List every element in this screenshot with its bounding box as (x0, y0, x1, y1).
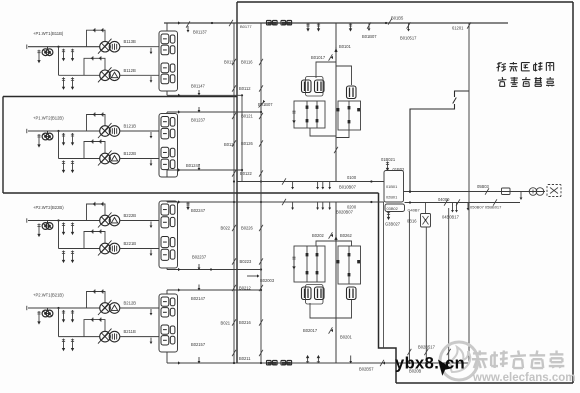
X-box link to line 0400 (425, 203, 427, 214)
arrester row 3 lower x63 (63, 251, 65, 262)
current arrows upper row 1 (92, 29, 95, 32)
svg-text:61201: 61201 (452, 26, 464, 31)
branch junction row 2 (57, 130, 59, 132)
current arrows lower row 1 (90, 57, 93, 60)
surge arrester on top line c (350, 23, 352, 30)
switch slash on top line (229, 20, 233, 26)
svg-text:B91B07: B91B07 (258, 102, 273, 107)
arrowhead top line row 1 (178, 21, 181, 24)
link to cabinet lower row 1 (120, 74, 159, 76)
arrester bus0100 c (322, 182, 324, 189)
arrester row 3 upper x72 (72, 223, 74, 234)
arrester row 2 upper x63 (63, 133, 65, 144)
svg-text:B0126: B0126 (241, 141, 254, 146)
cluster2 left bottom link (310, 303, 336, 318)
cluster1 left CT branch a (306, 101, 308, 128)
cabinet top riser row 4 (166, 290, 168, 294)
notice text line1 (xiantiao quyu nei) (497, 63, 502, 65)
cabinet top riser row 2 (166, 112, 168, 114)
line PT cluster row 4 (42, 310, 49, 317)
junction bus0200 (370, 201, 372, 203)
arrowhead bottom line row 3 (178, 268, 181, 271)
arrester row 1 lower x72 (72, 77, 74, 88)
cluster1 left breaker B (315, 80, 325, 93)
switch B01017 (329, 54, 333, 60)
incoming line row 1 (28, 46, 100, 48)
bus link symbol 2 on bottom bus (281, 360, 286, 365)
cluster2 left breaker frame (306, 285, 324, 305)
feeder drop x426 (425, 227, 427, 363)
link to cabinet upper row 1 (120, 46, 159, 48)
svg-text:B01B07: B01B07 (362, 34, 377, 39)
watermark hanzi dianzifashaoyou (473, 352, 487, 354)
surge arrester on top line a (307, 23, 309, 30)
junction bus0100 (370, 180, 372, 182)
cluster2 left breaker B (315, 287, 325, 300)
cluster2 left breaker A (302, 287, 312, 300)
tick on row2 top line (198, 107, 200, 111)
tick on row4 bottom line (198, 357, 200, 362)
cluster2 left arrester (293, 256, 295, 268)
arrow on feeder B0202 (334, 236, 337, 240)
svg-text:B012: B012 (224, 142, 234, 147)
svg-text:B0262: B0262 (340, 233, 353, 238)
tick on row4 top line (198, 285, 200, 290)
arrester row 1 upper x63 (63, 49, 65, 60)
energized area box left edge (236, 2, 238, 363)
link to cabinet lower row 3 (120, 248, 159, 250)
arrester on line 0500 (520, 192, 522, 199)
svg-text:+P1.WT2(B12B): +P1.WT2(B12B) (33, 116, 64, 121)
svg-text:01B021: 01B021 (381, 157, 396, 162)
transformer B221B row 3 (100, 243, 111, 254)
feeder vertical segment (241, 95, 243, 181)
transformer B121B row 2 (100, 126, 111, 137)
branch junction row 3 (57, 219, 59, 221)
cluster1 left bottom link (310, 128, 336, 136)
cluster2 right breaker (347, 287, 357, 300)
svg-text:B212B: B212B (124, 301, 137, 306)
svg-text:02B01: 02B01 (386, 195, 397, 200)
fuse rect on line 0500 (502, 188, 511, 195)
junction dot on top line (211, 22, 213, 24)
transformer B112B row 1 (100, 70, 111, 81)
line 0500 to right (404, 191, 546, 193)
link to cabinet lower row 2 (120, 158, 159, 160)
CT loop upper row 1 (87, 30, 106, 47)
arrester row 3 upper x63 (63, 223, 65, 234)
arrowhead bottom line row 2 (178, 168, 181, 171)
svg-text:B0216: B0216 (239, 320, 252, 325)
svg-text:B02003: B02003 (260, 278, 275, 283)
current arrows lower row 3 (90, 230, 93, 233)
cluster1 left breaker frame (306, 77, 324, 97)
switch B010517 (407, 22, 411, 28)
svg-text:B022: B022 (221, 226, 231, 231)
arrow on feeder B0101 (334, 48, 337, 52)
energized area boundary step upper right (455, 91, 470, 97)
svg-text:B0122: B0122 (240, 171, 253, 176)
line PT cluster row 3 (42, 223, 49, 230)
branch junction row 4 (57, 307, 59, 309)
cluster1 right bottom link (336, 130, 349, 138)
switch on bus 0100 (282, 178, 286, 184)
incoming line row 4 (28, 307, 100, 309)
cluster1 right CT branch (348, 101, 350, 130)
energized area arm bottom edge (3, 192, 379, 194)
switch on bus 0200 (282, 199, 286, 205)
CT loop lower row 4 (84, 320, 105, 337)
switch a on line 0400 (444, 199, 448, 205)
link to cabinet upper row 3 (120, 220, 159, 222)
transformer B122B row 2 (100, 153, 111, 164)
cabinet bottom riser row 2 (166, 170, 168, 177)
arrester 01B02 (387, 162, 389, 170)
tie box 03B02 (385, 204, 405, 212)
incoming line row 3 (28, 220, 100, 222)
arrester at line start row 3 (38, 224, 40, 236)
watermark cursor (438, 360, 452, 376)
svg-text:+P2.WT1(B21B): +P2.WT1(B21B) (33, 293, 64, 298)
arrester row 2 upper x72 (72, 133, 74, 144)
arrester bus0200 d (329, 202, 331, 209)
junction dots at feeder connections (241, 94, 243, 96)
link to cabinet lower row 4 (120, 336, 159, 338)
junction at boundary x410 lower (409, 201, 411, 203)
svg-text:+P1.WT1(B11B): +P1.WT1(B11B) (33, 31, 64, 36)
energized area box bottom edge (396, 382, 573, 384)
svg-text:B211B: B211B (124, 329, 136, 334)
arrester row 4 lower x72 (72, 339, 74, 350)
svg-text:www.elecfans.com: www.elecfans.com (472, 372, 575, 384)
cluster2 right branch link (336, 241, 352, 246)
svg-text:B0223: B0223 (240, 259, 253, 264)
switchgear cabinet row 2 (159, 114, 178, 178)
cabinet bottom line row 3 (167, 269, 261, 271)
svg-text:B02B517: B02B517 (418, 345, 436, 350)
switchgear cabinet row 4 (159, 294, 178, 352)
switch at 61201 tap (467, 22, 471, 28)
svg-text:B221B: B221B (124, 241, 137, 246)
junction on row3 bottom line (210, 268, 212, 270)
tick on row3 bottom line (198, 264, 200, 269)
CT loop upper row 3 (87, 204, 106, 221)
switch B0202 (329, 232, 333, 238)
bus vertical B011/B012 (233, 23, 235, 363)
bus 0100 (238, 181, 385, 183)
junction dots bottom bus (408, 362, 410, 364)
cabinet bottom riser row 1 (166, 91, 168, 95)
cabinet top riser row 3 (166, 201, 168, 202)
svg-text:B01237: B01237 (191, 118, 206, 123)
svg-text:01B01: 01B01 (386, 184, 397, 189)
svg-text:03B02: 03B02 (387, 206, 398, 211)
bus link symbol 1 on bottom bus (267, 360, 272, 365)
arrester G3B027 (388, 212, 390, 219)
svg-text:B0101: B0101 (339, 44, 352, 49)
current arrows lower row 2 (90, 140, 93, 143)
vertical drop x383 (383, 202, 385, 348)
energized area arm top edge (3, 96, 237, 98)
svg-text:B02247: B02247 (191, 208, 206, 213)
top feeder line (164, 22, 508, 24)
energized area boundary step near bottom (379, 193, 397, 383)
CT loop lower row 3 (84, 232, 105, 249)
tick on row1 bottom line (198, 90, 200, 94)
junction with slash B01B5 (385, 22, 387, 24)
X-box PT 0B16 (421, 214, 431, 228)
svg-text:B01017: B01017 (311, 55, 326, 60)
cabinet top line row 3 (167, 201, 384, 203)
cluster1 left arrester (293, 110, 295, 122)
svg-text:B010517: B010517 (400, 36, 417, 41)
cluster1 right branch link (336, 66, 352, 85)
link to cabinet upper row 2 (120, 130, 159, 132)
arrowhead bottom line row 4 (178, 361, 181, 364)
switch lower on feeder B0101 (334, 147, 338, 153)
svg-text:B0226: B0226 (241, 226, 254, 231)
arrester at line start row 2 (38, 134, 40, 146)
transformer B222B row 3 (100, 215, 111, 226)
feeder drop x449 (448, 208, 450, 363)
cluster2 right CT loop (338, 246, 361, 284)
tick bottom bus (350, 356, 352, 363)
svg-text:cn: cn (445, 355, 465, 373)
arrester at line start row 4 (38, 311, 40, 323)
svg-text:B02237: B02237 (192, 255, 207, 260)
branch junction row 1 (57, 46, 59, 48)
arrester bus0100 a (292, 182, 294, 189)
dashed load box (547, 185, 561, 197)
cluster1 left breaker A (302, 80, 312, 93)
switch arrow on bottom bus (382, 361, 385, 364)
switch B02017 (329, 327, 333, 333)
diagonal tie B91B07 (259, 102, 265, 108)
svg-text:B020B07: B020B07 (336, 210, 354, 215)
bus vertical right B0116 chain (260, 23, 262, 363)
arrowhead bottom line row 1 (178, 94, 181, 97)
cluster1 left branch link (316, 62, 336, 78)
switch b on line 0400 (456, 199, 460, 205)
arrester bus0100 b (317, 182, 319, 189)
junction at boundary x410 upper (409, 190, 411, 192)
notice text line2 (wei daidian shebei) (498, 79, 506, 82)
watermark flame logo circle (440, 342, 478, 380)
arrester bus0200 b (317, 202, 319, 209)
feeder drop x409 (408, 212, 410, 364)
cluster1 right breaker (347, 86, 357, 99)
svg-text:B02147: B02147 (191, 296, 206, 301)
svg-text:B01147: B01147 (191, 84, 206, 89)
cluster2 right bottom link (336, 300, 352, 318)
arrester row 2 lower x63 (63, 161, 65, 172)
cluster2 right CT marks (337, 260, 340, 263)
line 0400 to right (405, 202, 521, 204)
arrester bottom bus b (317, 357, 319, 363)
cluster2 left CT branch b (316, 246, 318, 282)
line PT cluster row 1 (42, 49, 49, 56)
down arrows on line 0400 (452, 203, 454, 212)
arrowhead top line row 2 (178, 110, 181, 113)
bus link symbol 2 on top line (281, 20, 286, 25)
cluster1 left CT branch b (316, 101, 318, 128)
cluster2 left CT loop (294, 246, 325, 282)
arrester row 3 lower x72 (72, 251, 74, 262)
svg-text:B0211: B0211 (239, 356, 251, 361)
svg-text:B222B: B222B (124, 213, 137, 218)
svg-text:B011: B011 (224, 60, 234, 65)
arrester row 4 upper x72 (72, 310, 74, 321)
current arrows upper row 4 (92, 290, 95, 293)
arrester row 2 lower x72 (72, 161, 74, 172)
bus tie arrow B02003 (247, 275, 258, 277)
svg-text:B0201: B0201 (340, 335, 353, 340)
svg-text:B02017: B02017 (303, 328, 318, 333)
CT loop upper row 4 (87, 292, 106, 309)
energized area box top edge (237, 1, 573, 3)
switch B01B07 on top line (367, 22, 371, 28)
transformer B212B row 4 (100, 303, 111, 314)
feeder vertical B0101 (335, 23, 337, 182)
switch slashes lower half (232, 225, 236, 231)
svg-text:+P2.WT2(B22B): +P2.WT2(B22B) (33, 205, 64, 210)
CT loop lower row 1 (84, 58, 105, 75)
svg-text:0B16: 0B16 (407, 219, 417, 224)
cabinet bottom line row 2 (167, 169, 242, 171)
right vertical 61201 feeder (468, 23, 470, 363)
svg-text:B021: B021 (221, 321, 231, 326)
energized area arm left edge (2, 97, 4, 194)
switch c on line 0400 (493, 199, 497, 205)
incoming line row 2 (28, 130, 100, 132)
arrowhead top line row 4 (178, 288, 181, 291)
svg-text:G3B027: G3B027 (385, 222, 401, 227)
svg-text:05B03: 05B03 (477, 184, 490, 189)
svg-text:B02B57: B02B57 (359, 367, 374, 372)
svg-text:0100: 0100 (347, 175, 357, 180)
cluster2 left CT branch a (306, 246, 308, 282)
cabinet bottom line row 4 (167, 362, 469, 364)
cluster2 right CT branch (348, 246, 350, 284)
svg-text:B0202: B0202 (312, 233, 325, 238)
CT loop lower row 2 (84, 142, 105, 159)
transformer B211B row 4 (100, 331, 111, 342)
svg-text:B01B5: B01B5 (391, 16, 404, 21)
cluster2 left branch link (316, 241, 336, 246)
current arrows upper row 2 (92, 113, 95, 116)
svg-text:B0121: B0121 (241, 114, 254, 119)
link to cabinet upper row 4 (120, 307, 159, 309)
arrester row 1 upper x72 (72, 49, 74, 60)
arrester bus0200 c (322, 202, 324, 209)
cluster1 left CT loop (294, 101, 325, 128)
bus 0200 extension (238, 201, 385, 203)
transformer B113B row 1 (100, 41, 111, 52)
arrester at line start row 1 (38, 50, 40, 62)
svg-text:ybx8.: ybx8. (395, 355, 439, 373)
energized area box right edge (572, 2, 574, 383)
arrester on row3 top line (187, 202, 189, 208)
switchgear cabinet row 1 (159, 31, 178, 91)
arrester bus0200 a (292, 202, 294, 209)
cabinet bottom riser row 3 (166, 268, 168, 270)
cabinet top line row 2 (167, 111, 261, 113)
current arrows lower row 4 (90, 318, 93, 321)
tie box 01B01/02B01 (384, 171, 404, 203)
current arrows upper row 3 (92, 202, 95, 205)
svg-text:B02157: B02157 (191, 342, 206, 347)
arrester row 4 lower x63 (63, 339, 65, 350)
arrester bottom bus a (307, 357, 309, 363)
svg-text:B0177: B0177 (240, 24, 252, 29)
CT loop upper row 2 (87, 115, 106, 132)
svg-text:B122B: B122B (124, 151, 137, 156)
cabinet bottom riser row 4 (166, 352, 168, 363)
PT circles on line 0500 (529, 188, 537, 196)
surge arrester on top line b (318, 23, 320, 30)
cluster1 right CT loop (338, 101, 361, 130)
svg-text:B121B: B121B (124, 124, 137, 129)
switch on line 0500 (485, 188, 489, 194)
disconnector on top line (186, 21, 190, 27)
feeder vertical B0201 (335, 202, 337, 363)
svg-text:B0112: B0112 (239, 86, 251, 91)
tick on row2 bottom line (198, 165, 200, 170)
svg-text:050B07 05BB017: 050B07 05BB017 (470, 205, 502, 210)
switch slashes upper half (232, 59, 236, 65)
svg-text:04000: 04000 (438, 197, 450, 202)
svg-text:B010B07: B010B07 (339, 185, 357, 190)
bus link symbol 1 on top line (267, 20, 272, 25)
arrester row 4 upper x63 (63, 310, 65, 321)
svg-text:B113B: B113B (124, 39, 136, 44)
cabinet top line row 4 (167, 289, 261, 291)
line PT cluster row 2 (42, 133, 49, 140)
cabinet bottom line row 1 (167, 94, 242, 96)
switchgear cabinet row 3 (159, 201, 178, 268)
svg-text:B112B: B112B (124, 68, 136, 73)
arrowhead top line row 3 (178, 200, 181, 203)
arrester bus0100 d (329, 182, 331, 189)
cabinet top riser row 1 (166, 23, 168, 31)
arrester row 1 lower x63 (63, 77, 65, 88)
svg-text:B0116: B0116 (241, 60, 253, 65)
cluster1 right CT marks (337, 108, 340, 111)
svg-text:04B0B17: 04B0B17 (442, 215, 460, 220)
svg-text:B01137: B01137 (193, 30, 208, 35)
